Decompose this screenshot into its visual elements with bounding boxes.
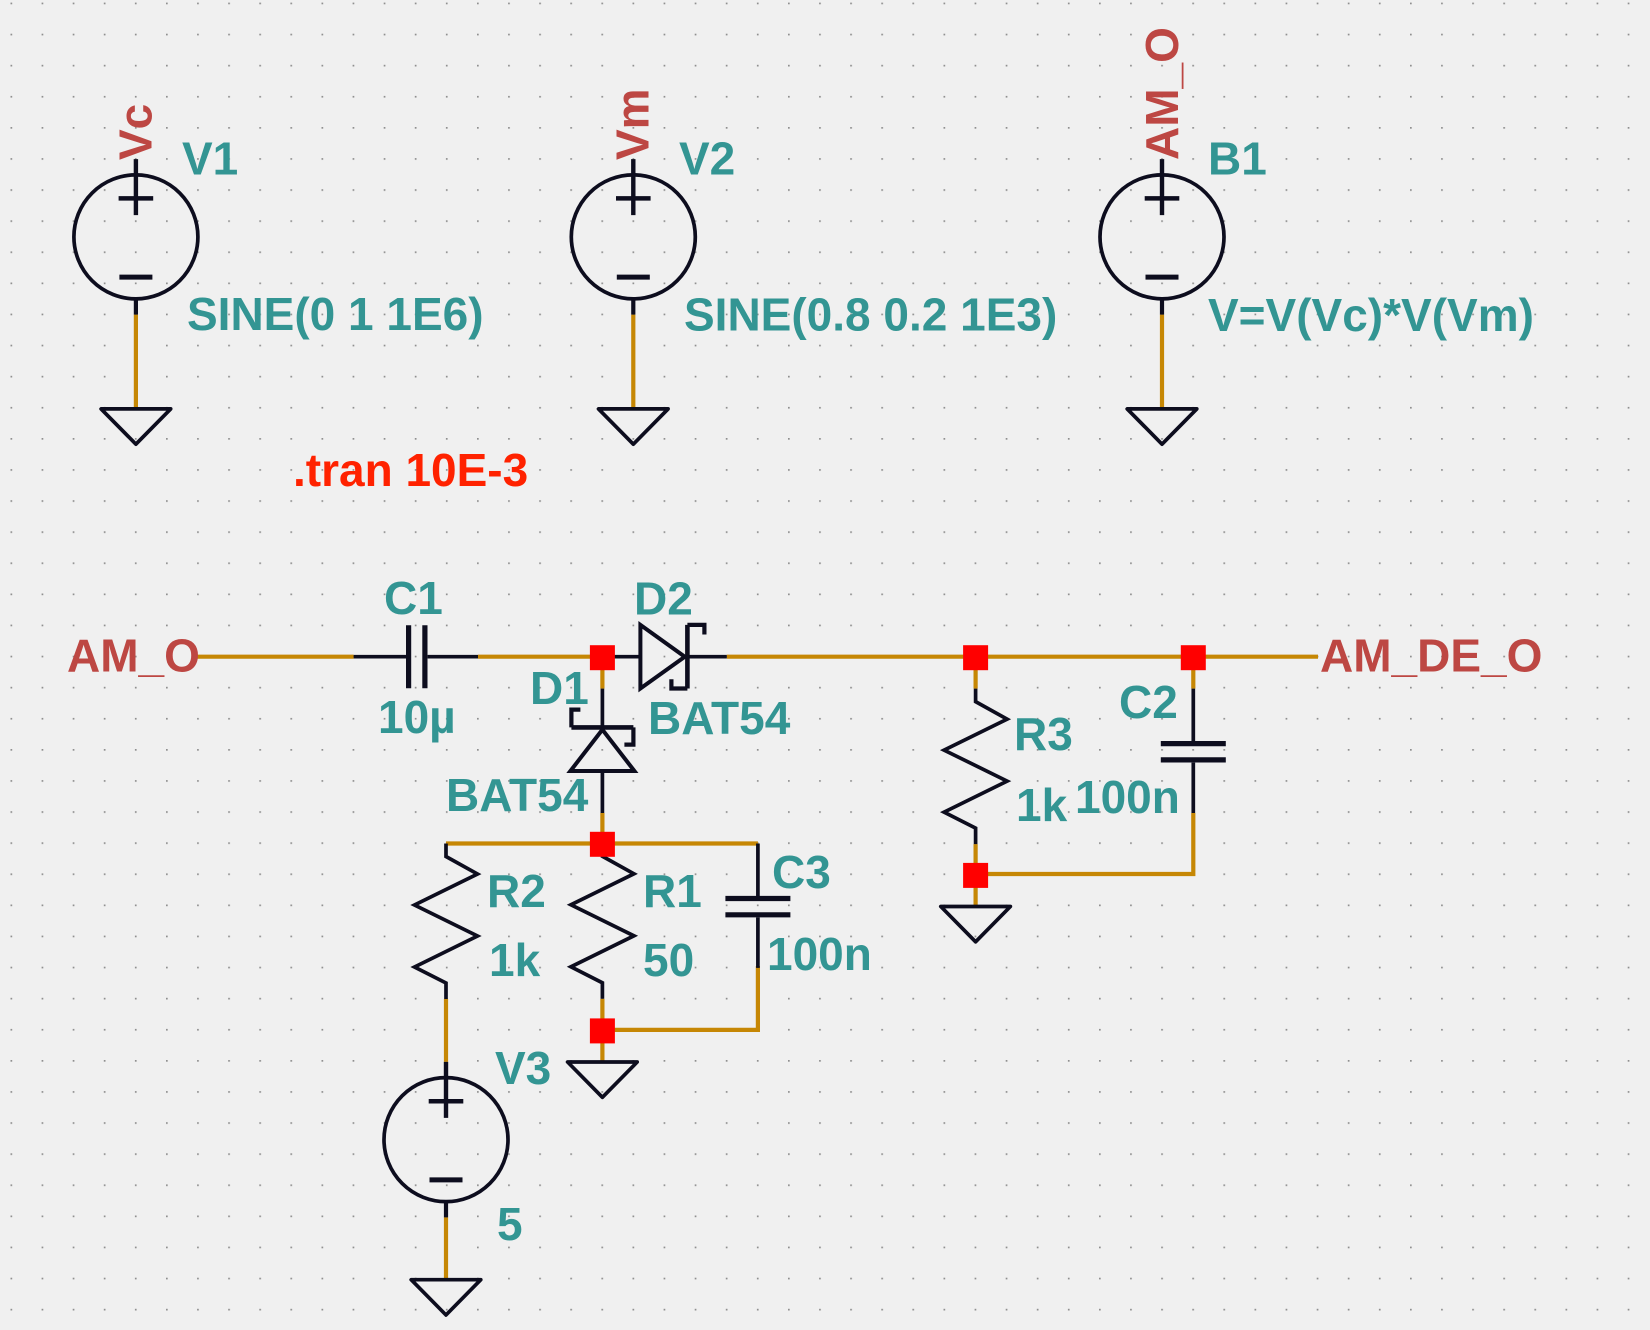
node A junction	[590, 645, 615, 670]
capacitor C1	[354, 625, 478, 688]
svg-text:AM_O: AM_O	[1136, 27, 1188, 160]
node E junction C2 top	[1181, 645, 1206, 670]
wire node C to ground	[600, 1030, 604, 1061]
wire AM_O to C1	[197, 655, 354, 659]
ground V1	[101, 409, 171, 444]
svg-text:V2: V2	[679, 133, 735, 185]
svg-text:R1: R1	[643, 865, 702, 917]
resistor R3	[944, 689, 1007, 845]
resistor R2	[415, 844, 478, 1000]
svg-text:AM_O: AM_O	[67, 630, 200, 682]
svg-text:10µ: 10µ	[378, 691, 456, 743]
resistor R1	[571, 843, 634, 999]
wire C1 to node A	[478, 655, 602, 659]
node C junction R1 bottom	[590, 1018, 615, 1043]
capacitor C2	[1161, 689, 1226, 813]
svg-text:R3: R3	[1014, 708, 1073, 760]
voltage source V2	[571, 159, 695, 315]
wire node D to ground	[973, 874, 977, 905]
svg-text:V3: V3	[495, 1042, 551, 1094]
wire R2 to V3	[444, 999, 448, 1062]
svg-text:D2: D2	[634, 573, 693, 625]
wire node B horizontal	[446, 841, 758, 845]
svg-text:50: 50	[643, 934, 694, 986]
wire R1 to node C	[600, 999, 604, 1030]
svg-text:C2: C2	[1119, 676, 1178, 728]
node A2 junction R3 top	[963, 645, 988, 670]
wire D1 to node B	[600, 813, 604, 843]
wire V3 to ground	[444, 1217, 448, 1278]
svg-text:Vc: Vc	[110, 104, 162, 160]
wire C2 to node D	[987, 813, 1193, 874]
svg-text:1k: 1k	[1016, 779, 1068, 831]
svg-text:C3: C3	[772, 846, 831, 898]
wire node A2 to R3	[973, 657, 977, 689]
svg-text:AM_DE_O: AM_DE_O	[1320, 630, 1542, 682]
svg-text:B1: B1	[1208, 133, 1267, 185]
diode D1	[570, 689, 634, 813]
ground V2	[599, 409, 669, 444]
svg-text:100n: 100n	[1075, 771, 1180, 823]
svg-text:100n: 100n	[767, 928, 872, 980]
svg-text:BAT54: BAT54	[446, 769, 589, 821]
svg-text:5: 5	[497, 1198, 523, 1250]
behavioral source B1	[1100, 159, 1224, 315]
svg-text:D1: D1	[530, 662, 589, 714]
voltage source V1	[74, 159, 198, 315]
svg-text:SINE(0.8 0.2 1E3): SINE(0.8 0.2 1E3)	[684, 289, 1057, 341]
node D junction R3 bottom	[963, 863, 988, 888]
wire V1 to ground	[134, 315, 138, 408]
diode D2	[602, 625, 726, 689]
wire V2 to ground	[631, 315, 635, 408]
svg-text:R2: R2	[487, 865, 546, 917]
svg-text:1k: 1k	[489, 934, 541, 986]
svg-text:SINE(0 1 1E6): SINE(0 1 1E6)	[187, 288, 484, 340]
svg-text:C1: C1	[384, 572, 443, 624]
voltage source V3	[384, 1062, 508, 1218]
node B junction	[590, 832, 615, 857]
ground R3 node	[941, 907, 1011, 942]
ground B1	[1127, 409, 1197, 444]
wire node E to C2	[1191, 657, 1195, 689]
wire D2 to AM_DE_O	[727, 655, 1318, 659]
svg-text:Vm: Vm	[607, 88, 659, 160]
svg-text:.tran 10E-3: .tran 10E-3	[293, 444, 528, 496]
wire R3 to node D	[973, 844, 977, 874]
wire B1 to ground	[1160, 315, 1164, 408]
svg-text:BAT54: BAT54	[648, 692, 791, 744]
ground V3	[411, 1280, 481, 1315]
ground R1 node	[568, 1062, 638, 1097]
capacitor C3	[725, 844, 790, 968]
svg-text:V=V(Vc)*V(Vm): V=V(Vc)*V(Vm)	[1208, 289, 1534, 341]
wire node A to D1	[600, 657, 604, 689]
wire C3 to node C	[614, 966, 758, 1030]
svg-text:V1: V1	[182, 133, 238, 185]
